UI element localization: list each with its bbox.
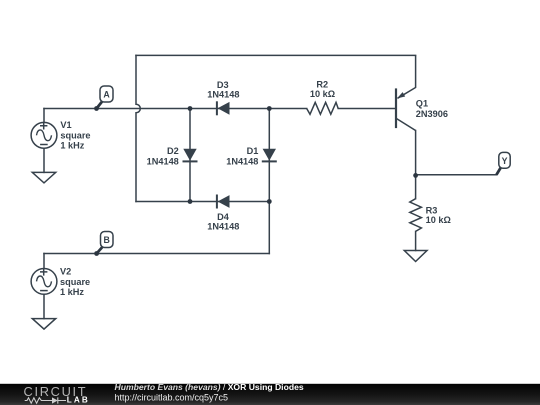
junction dot D2 bottom (188, 199, 193, 204)
junction dot D2 top (188, 106, 193, 111)
ground for R3 (404, 251, 427, 262)
diode D4 (217, 195, 230, 209)
svg-text:Humberto Evans (hevans) / XOR: Humberto Evans (hevans) / XOR Using Diod… (115, 382, 304, 392)
wire node B horizontal (44, 253, 269, 255)
svg-text:10 kΩ: 10 kΩ (310, 89, 335, 99)
label V1 (60, 120, 90, 151)
junction dot D1 bottom (267, 199, 272, 204)
label D1 (226, 146, 258, 167)
diode D3 (217, 101, 230, 115)
svg-text:V2: V2 (60, 266, 71, 276)
svg-text:1N4148: 1N4148 (226, 156, 258, 166)
svg-text:LAB: LAB (67, 395, 90, 404)
wire node Y horizontal (416, 174, 497, 176)
wire left riser with hop over node A wire (136, 55, 140, 201)
wire B riser (268, 202, 270, 254)
junction dot D1 top (267, 106, 272, 111)
ground for V1 (32, 172, 55, 183)
junction dot collector Y R3 (413, 173, 418, 178)
label V2 (60, 266, 90, 297)
svg-text:B: B (104, 235, 110, 245)
voltage source V1 (31, 122, 57, 148)
wire V2 top stem (43, 254, 45, 269)
wire R3 bottom stem (415, 231, 417, 250)
footer logo squiggle resistor and diode (25, 397, 66, 403)
label R3 (426, 205, 451, 225)
svg-text:D4: D4 (217, 212, 230, 222)
node Y flag (496, 152, 510, 174)
svg-text:1 kHz: 1 kHz (60, 287, 84, 297)
wire V2 bottom stem (43, 294, 45, 318)
diode D2 (183, 149, 198, 162)
wire D1 branch (268, 109, 270, 202)
svg-text:1 kHz: 1 kHz (60, 141, 84, 151)
svg-text:10 kΩ: 10 kΩ (426, 215, 451, 225)
wire Q1 collector riser (415, 131, 417, 176)
ground for V2 (32, 319, 55, 330)
svg-text:2N3906: 2N3906 (416, 109, 448, 119)
label D4 (207, 212, 239, 232)
label R2 (310, 79, 335, 99)
wire node A horizontal (44, 108, 307, 110)
svg-text:square: square (60, 131, 90, 141)
svg-text:square: square (60, 277, 90, 287)
diode D1 (262, 149, 277, 162)
wire top rail (136, 54, 416, 56)
transistor Q1 (396, 55, 416, 130)
svg-text:R2: R2 (316, 79, 328, 89)
svg-text:D2: D2 (167, 146, 179, 156)
voltage source V2 (31, 268, 57, 294)
svg-text:1N4148: 1N4148 (207, 222, 239, 232)
wire R2 to Q1 base (338, 108, 395, 110)
svg-text:1N4148: 1N4148 (207, 89, 239, 99)
wire V1 bottom stem (43, 148, 45, 172)
svg-text:V1: V1 (60, 120, 71, 130)
svg-text:Y: Y (502, 156, 508, 166)
wire bottom bridge rail (136, 201, 269, 203)
svg-text:Q1: Q1 (416, 99, 428, 109)
svg-text:R3: R3 (426, 205, 438, 215)
resistor R3 (410, 199, 422, 232)
wire V1 top stem (43, 109, 45, 123)
label D3 (207, 80, 239, 99)
svg-text:http://circuitlab.com/cq5y7c5: http://circuitlab.com/cq5y7c5 (115, 392, 229, 402)
svg-text:1N4148: 1N4148 (147, 156, 179, 166)
Q1 emitter arrow (397, 92, 405, 98)
wire D2 branch (189, 109, 191, 202)
node A junction dot (94, 106, 99, 111)
node B flag (97, 232, 113, 254)
svg-text:D1: D1 (247, 146, 259, 156)
label Q1 (416, 99, 448, 119)
footer bar (0, 384, 540, 405)
wire R3 top stem (415, 175, 417, 198)
svg-text:A: A (103, 90, 110, 100)
node B junction dot (94, 251, 99, 256)
label D2 (147, 146, 179, 167)
resistor R2 (307, 102, 339, 114)
node A flag (97, 86, 114, 109)
